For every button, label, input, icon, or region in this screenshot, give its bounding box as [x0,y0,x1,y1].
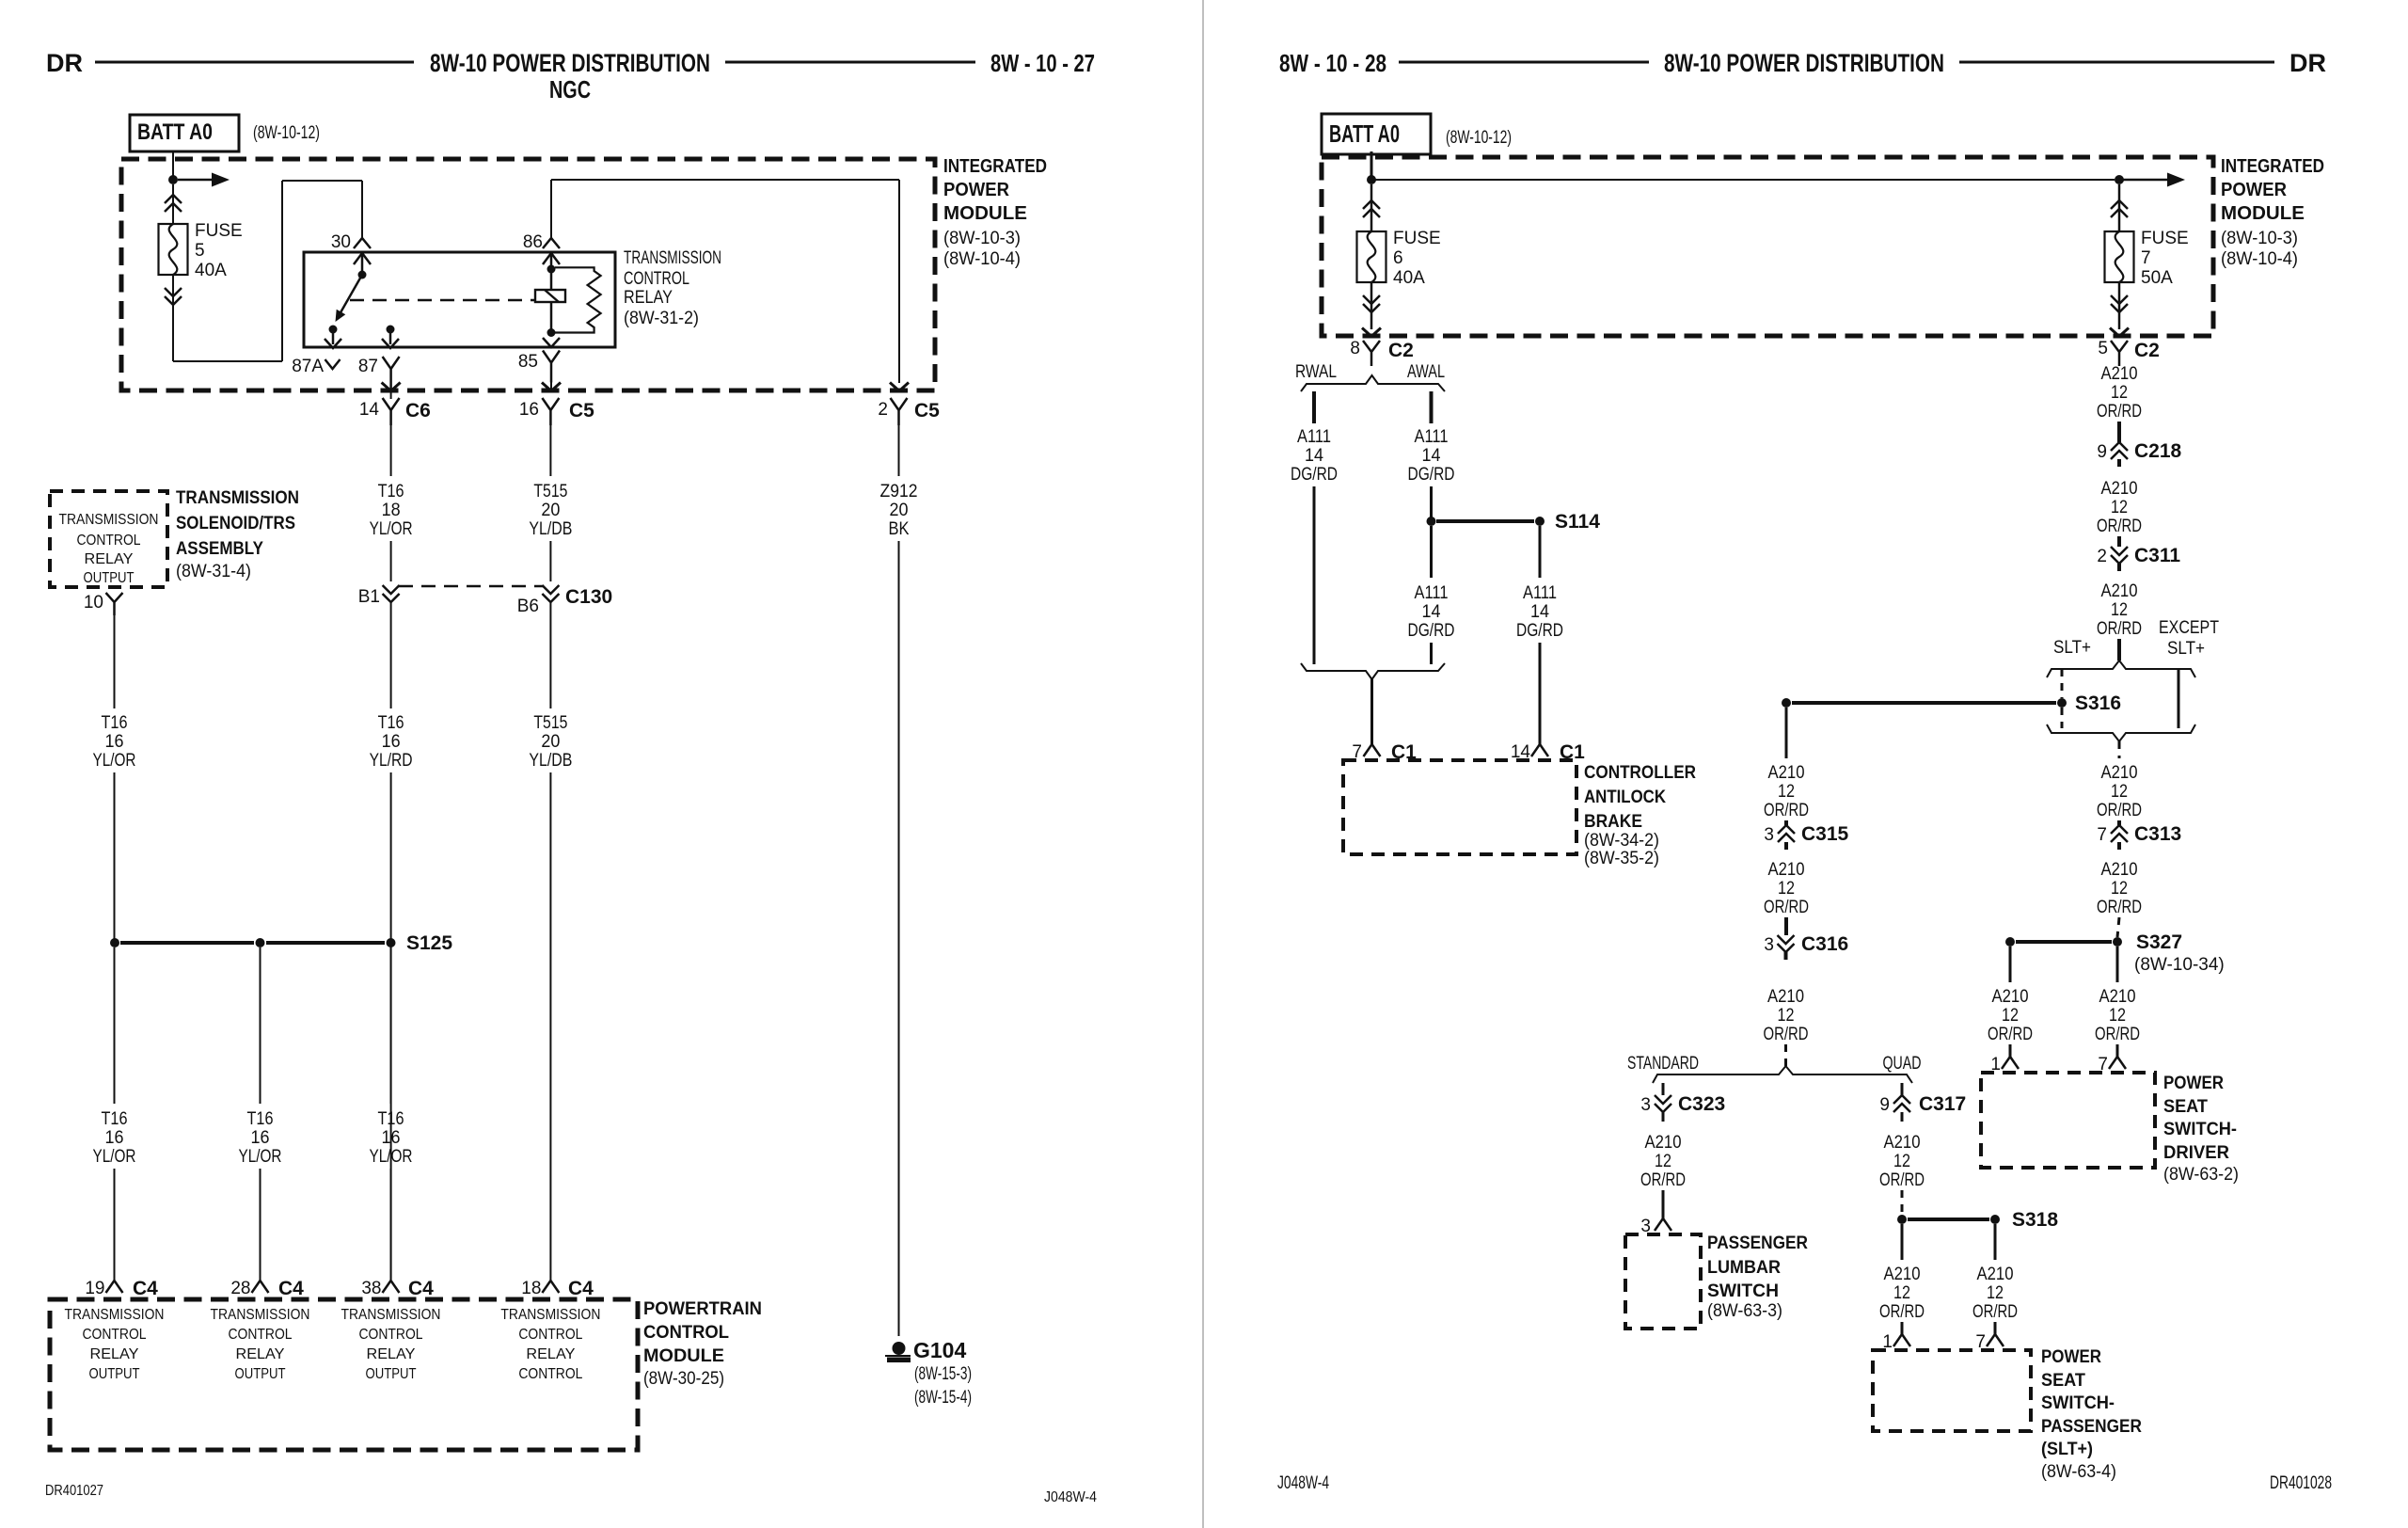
wire Z912 to ground G104 [898,541,900,1336]
splice S327 dot right [2113,937,2122,947]
svg-text:BATT A0: BATT A0 [137,119,213,145]
wire circuit T16 16 YL/RD upper [390,602,392,708]
svg-text:C218: C218 [2134,440,2182,462]
node splice at fuse 5 feed [168,175,178,184]
wire pin 85 to IPM edge [550,382,552,390]
wire AWAL stub [1430,391,1434,423]
pin 87 connector [383,357,400,390]
IPM exit arrow pin 85 [542,383,561,391]
wire to C130 B6 [549,541,551,581]
splice S318 bus [1908,1218,1989,1221]
split bracket below C2 pin 8 [1301,375,1445,391]
relay coil resistor [555,267,601,332]
svg-text:C2: C2 [1388,340,1414,361]
wire top bus to pin 86 [550,180,552,238]
svg-text:3: 3 [1764,825,1774,845]
relay coil top dot [547,265,556,274]
svg-text:C5: C5 [914,400,940,422]
splice S114 dot right [1535,517,1545,526]
PSSD pin 7 connector [2109,1057,2126,1069]
wire SLT+ dashed stub lower [2061,708,2064,728]
transmission control relay output box [50,491,167,587]
power seat switch driver box [1981,1073,2155,1168]
connector C4 pin 19 [106,1281,123,1293]
powertrain control module box [50,1299,638,1450]
svg-text:(8W-31-4): (8W-31-4) [176,562,251,581]
svg-text:DR: DR [2289,49,2326,77]
87 internal arrow [382,339,399,348]
splice S125 dot C [387,938,396,947]
svg-text:B1: B1 [358,587,380,607]
splice S125 dot B [256,938,265,947]
wire RWAL stub [1312,391,1316,423]
connector C130 dashed tie [399,585,544,588]
wire 87 to box edge [389,329,392,344]
PSSP pin 1 connector [1893,1334,1910,1346]
wire bottom jog right [173,360,282,362]
wire col B below S125 [260,947,261,1104]
wire circuit Z912 20 BK upper [898,425,900,476]
svg-text:C6: C6 [405,400,431,422]
connector C4 pin 28 [252,1281,269,1293]
wire AWAL to splice S114 [1430,486,1433,517]
wire fuse 7 to C2 pin 5 [2118,282,2121,329]
wire dashed stub below bracket [2118,741,2121,758]
page 1 header rule left [95,61,414,64]
crimp chevrons below fuse 5 [165,288,182,305]
pin 86 connector [543,238,560,248]
wire circuit T16 18 YL/OR [390,425,392,476]
svg-text:30: 30 [331,232,351,252]
wire col C to C4 38 [390,1169,392,1280]
wire into fuse 5 [172,184,174,226]
wire fuse 5 down [172,275,174,361]
wire into fuse 6 [1370,184,1373,233]
svg-text:EXCEPT: EXCEPT [2159,618,2219,638]
battery feed box BATT A0 (page 2) [1322,114,1431,154]
svg-text:(8W-10-3)(8W-10-4): (8W-10-3)(8W-10-4) [2221,229,2298,269]
splice S318 dot left [1897,1215,1907,1224]
relay contact 87A dot [329,326,338,334]
svg-text:85: 85 [518,352,538,372]
wire below S114 right [1539,526,1542,578]
wire SLT+ dashed stub [2061,669,2064,698]
svg-text:87: 87 [358,357,378,376]
wire col A to splice S125 [114,772,116,939]
wire dashed stub to standard/quad bracket [1784,1044,1787,1066]
relay coil symbol [535,290,565,302]
PLS pin 3 connector [1655,1218,1671,1231]
controller antilock brake box [1343,760,1576,854]
wire dashed stub to S327 [2117,917,2119,937]
svg-text:(8W-10-12): (8W-10-12) [253,123,320,143]
svg-text:8: 8 [1350,339,1360,358]
wire to C1 pin 14 [1539,643,1542,744]
page 2 header rule left [1399,61,1649,64]
connector C316 [1778,935,1795,952]
wire col C below S125 [390,947,392,1104]
svg-text:S125: S125 [406,932,452,954]
wire down to relay pin 30 [361,181,363,238]
ground G104 symbol [893,1342,906,1355]
pin 85 connector [543,351,560,383]
svg-text:86: 86 [523,232,543,252]
connector C4 pin 38 [383,1281,400,1293]
battery feed box BATT A0 (page 1) [130,115,239,151]
svg-text:DR: DR [46,49,83,77]
page divider [1202,0,1204,1528]
wire below S318 right [1994,1224,1997,1260]
wire QUAD stub [1901,1083,1904,1095]
svg-text:(8W-63-3): (8W-63-3) [1707,1301,1782,1321]
svg-text:28: 28 [230,1279,250,1298]
svg-text:2: 2 [2097,547,2107,566]
relay pin 86 internal arrow [543,253,560,264]
arrowhead page 2 [2167,173,2185,187]
svg-text:14: 14 [359,400,380,420]
svg-text:C4: C4 [278,1278,304,1299]
svg-text:C313: C313 [2134,823,2181,845]
wire dashed stub to S318 [1901,1190,1904,1215]
connector C5 pin 16 [542,398,559,425]
IPM exit arrow pin 8 [1362,328,1381,337]
splice S316 dot [2057,698,2067,708]
wire stub to C218 [2117,422,2121,442]
wire circuit T16 16 YL/OR col A upper [114,614,116,708]
node splice fuse 6 feed [1367,175,1376,184]
IPM exit arrow pin 5 [2110,328,2129,337]
wire bracket to C1 pin 7 [1370,679,1373,744]
wire arrow feed right [178,179,214,182]
svg-text:(8W-30-25): (8W-30-25) [643,1369,724,1389]
wire BATT A0 to node [172,151,174,181]
svg-text:(8W-63-4): (8W-63-4) [2041,1462,2116,1482]
page 1 header rule right [725,61,975,64]
wire circuit T515 20 YL/DB [549,425,551,476]
crimp chevrons below fuse 6 [1363,295,1380,312]
transmission control relay box [304,252,615,347]
svg-text:(8W-10-3)(8W-10-4): (8W-10-3)(8W-10-4) [943,229,1021,269]
svg-text:BATT A0: BATT A0 [1329,119,1400,148]
wire below S327 left [2009,947,2012,982]
svg-text:C316: C316 [1801,933,1848,955]
wire to C130 B1 [390,541,392,581]
integrated power module box (page 1) [121,159,935,390]
svg-text:B6: B6 [517,597,539,616]
crimp chevrons above fuse 6 [1363,200,1380,217]
wire col A to C4 19 [114,1169,116,1280]
pin 10 connector [106,593,123,615]
wire jog top right [282,180,362,182]
wire T515 to C4 18 [549,772,551,1280]
svg-text:(8W-10-34): (8W-10-34) [2134,955,2225,975]
merge bracket above C1 pin 7 [1301,663,1445,679]
wire circuit T16 16 YL/RD to C4 38 [390,772,392,1280]
connector C130 pin B1 [383,585,400,602]
wire T515 lower upper [549,602,551,708]
fuse F7 50A [2105,231,2134,282]
page 2 header rule right [1959,61,2274,64]
wire below S316 left dot [1785,708,1788,758]
svg-text:J048W-4: J048W-4 [1277,1473,1329,1493]
wire into fuse 7 [2118,184,2121,233]
svg-text:G104: G104 [913,1338,966,1362]
integrated power module box (page 2) [1322,157,2213,336]
relay coil bottom dot [547,328,556,337]
splice S316 bus [1792,701,2056,705]
connector C218 [2111,442,2128,459]
crimp chevrons above fuse 7 [2111,200,2128,217]
connector C130 pin B6 [542,585,559,602]
splice S125 bus right [266,941,385,945]
wire jog up [281,181,283,361]
svg-text:C2: C2 [2134,340,2160,361]
power seat switch passenger box [1873,1350,2031,1431]
svg-text:C323: C323 [1678,1093,1725,1115]
wire top bus to C5 pin 2 [551,179,899,181]
wire stub to C316 [1784,917,1788,935]
svg-text:(8W-34-2)(8W-35-2): (8W-34-2)(8W-35-2) [1584,831,1659,868]
svg-text:SLT+: SLT+ [2167,639,2205,659]
pin 87A connector [325,359,341,369]
wire STANDARD stub [1662,1083,1665,1095]
svg-text:5: 5 [2098,339,2108,358]
splice S327 dot left [2005,937,2015,947]
PSSD pin 1 connector [2002,1057,2019,1069]
svg-text:QUAD: QUAD [1883,1054,1922,1074]
svg-text:C4: C4 [568,1278,594,1299]
crimp chevrons above fuse 5 [165,195,182,212]
87A internal arrow [325,339,341,348]
svg-text:8W - 10 - 28: 8W - 10 - 28 [1279,49,1386,77]
wire below S327 right [2116,947,2119,982]
passenger lumbar switch box [1625,1234,1701,1329]
wire below S318 left [1901,1224,1904,1260]
svg-text:S318: S318 [2012,1209,2058,1231]
svg-text:(8W-10-12): (8W-10-12) [1446,128,1512,148]
PSSP pin 7 connector [1987,1334,2004,1346]
svg-text:S327: S327 [2136,931,2182,953]
wire below S114 left [1430,526,1433,578]
wire fused B+ to C5 pin 2 [898,180,900,383]
connector C313 [2111,825,2128,842]
wire col A below S125 [114,947,116,1104]
connector C1 pin 14 [1531,744,1548,756]
wire bus to fuse 7 [1371,179,2115,181]
svg-text:3: 3 [1640,1095,1651,1115]
svg-text:7: 7 [2097,825,2107,845]
connector C2 pin 5 [2111,341,2128,366]
wire to PLS pin 3 [1662,1190,1665,1218]
splice S114 dot left [1427,517,1436,526]
svg-text:DR401027: DR401027 [45,1483,103,1499]
85 internal arrow [543,338,560,347]
splice S316 dot left branch [1782,698,1791,708]
svg-text:J048W-4: J048W-4 [1044,1489,1097,1505]
connector C4 pin 18 [542,1281,559,1293]
svg-text:8W - 10 - 27: 8W - 10 - 27 [990,49,1095,77]
svg-text:(8W-63-2): (8W-63-2) [2163,1165,2239,1185]
svg-text:AWAL: AWAL [1407,362,1445,382]
wire BATT A0 to node page 2 [1370,151,1373,181]
svg-text:16: 16 [519,400,539,420]
svg-text:DR401028: DR401028 [2270,1473,2332,1493]
svg-text:18: 18 [521,1279,541,1298]
relay common contact [358,271,367,279]
svg-text:10: 10 [84,593,103,613]
wire stub to C311 [2117,536,2121,547]
splice S125 dot A [110,938,119,947]
node splice fuse 7 feed [2115,175,2124,184]
svg-text:C317: C317 [1919,1093,1966,1115]
svg-text:2: 2 [878,400,888,420]
variant merge bracket bottom [2047,724,2195,741]
wire to merge bracket [1430,643,1433,664]
relay pin 30 internal arrow [354,253,371,264]
splice S318 dot right [1990,1215,2000,1224]
svg-text:19: 19 [85,1279,104,1298]
svg-text:RWAL: RWAL [1295,362,1337,382]
arrowhead [212,173,230,187]
connector C317 [1893,1095,1910,1112]
wire stub to variant bracket [2117,639,2121,661]
standard/quad split bracket [1653,1066,1912,1083]
svg-text:C130: C130 [565,586,612,608]
IPM exit arrow pin 2 [890,383,909,391]
connector C311 [2111,547,2128,564]
fuse F5 40A [159,224,188,275]
svg-text:3: 3 [1764,935,1774,955]
relay control dashed link [350,299,535,302]
svg-text:S316: S316 [2075,692,2121,714]
splice S327 bus [2016,940,2112,944]
svg-text:9: 9 [2097,442,2107,462]
svg-text:87A: 87A [292,357,324,376]
svg-text:SLT+: SLT+ [2053,638,2091,658]
svg-text:38: 38 [361,1279,381,1298]
relay contact 87 dot [387,326,395,334]
connector C1 pin 7 [1364,744,1381,756]
svg-text:S114: S114 [1555,511,1600,533]
pin 30 connector [354,238,371,248]
crimp chevrons below fuse 7 [2111,295,2128,312]
svg-text:C315: C315 [1801,823,1849,845]
svg-text:STANDARD: STANDARD [1627,1054,1699,1074]
connector C5 pin 2 [891,398,908,425]
svg-text:NGC: NGC [549,75,591,103]
wire 87A to box edge [332,329,335,344]
splice S114 bus [1436,519,1534,523]
svg-text:C311: C311 [2134,545,2180,566]
connector C6 pin 14 [383,398,400,425]
wire RWAL down to bracket [1313,486,1316,664]
relay switch blade [340,275,362,314]
connector C315 [1778,825,1795,842]
svg-text:8W-10 POWER DISTRIBUTION: 8W-10 POWER DISTRIBUTION [430,49,710,77]
variant split bracket top [2047,661,2195,677]
IPM exit arrow pin 87 [382,383,401,391]
svg-text:C4: C4 [133,1278,158,1299]
fuse F6 40A [1357,231,1386,282]
connector C2 pin 8 [1363,341,1380,366]
splice S125 bus left [120,941,254,945]
wire col B to C4 28 [260,1169,261,1280]
svg-text:8W-10 POWER DISTRIBUTION: 8W-10 POWER DISTRIBUTION [1664,49,1944,77]
svg-text:C4: C4 [408,1278,434,1299]
wire EXCEPT SLT+ stub [2178,669,2180,728]
connector C323 [1655,1095,1671,1112]
wire fuse 6 to C2 pin 8 [1370,282,1373,329]
svg-text:9: 9 [1879,1095,1890,1115]
svg-text:C5: C5 [569,400,594,422]
